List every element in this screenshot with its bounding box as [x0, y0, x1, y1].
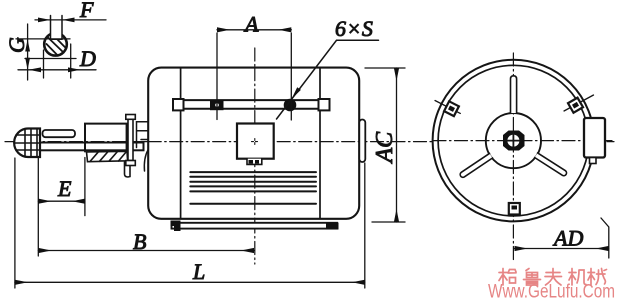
svg-text:6×S: 6×S	[335, 16, 373, 41]
L extension left	[14, 158, 16, 288]
terminal box	[237, 124, 274, 159]
main horizontal centerline	[5, 141, 614, 143]
fan plate stem	[128, 119, 133, 160]
A dimension	[217, 29, 291, 31]
end view rim circle	[438, 65, 589, 216]
shaft step profile	[137, 122, 149, 148]
6xS leader	[277, 40, 379, 119]
G dimension line	[27, 24, 29, 80]
svg-text:A: A	[243, 12, 259, 37]
right foot block	[326, 223, 339, 230]
hub circle	[486, 113, 541, 168]
E extension right	[84, 158, 86, 216]
AC extension top	[365, 67, 405, 69]
lug top-right tick	[564, 95, 594, 111]
shaft end dome	[14, 129, 40, 158]
E dimension	[38, 200, 85, 202]
F dimension line	[35, 19, 106, 21]
lower fin line	[190, 203, 316, 205]
fan plate cap	[126, 115, 136, 120]
B dimension	[38, 250, 254, 252]
base plate	[172, 223, 338, 229]
AD extension right	[601, 218, 609, 258]
key on shaft	[43, 130, 76, 137]
AC extension bottom	[372, 221, 405, 223]
L dimension	[15, 281, 365, 283]
G reference bottom	[25, 58, 76, 60]
A extension line left	[216, 33, 218, 120]
terminal box collar	[247, 159, 262, 165]
main vertical centerline	[254, 48, 256, 264]
shaft rod	[40, 143, 144, 151]
bracket foot	[125, 162, 131, 177]
end view terminal box	[584, 118, 605, 158]
spoke lower left	[460, 153, 492, 177]
keyway slot	[51, 30, 63, 39]
G reference top	[16, 38, 70, 40]
svg-text:F: F	[79, 0, 94, 22]
nut bore	[507, 135, 519, 147]
AD dimension	[515, 248, 609, 250]
AC dimension line	[396, 68, 398, 222]
rail lug left	[173, 99, 184, 110]
bearing block	[85, 124, 127, 152]
hex nut	[503, 131, 525, 151]
end view outer circle	[433, 60, 595, 222]
section hatching	[47, 36, 65, 55]
end bell curve	[144, 150, 148, 171]
svg-text:G: G	[4, 37, 29, 53]
stator frame line right	[319, 68, 321, 219]
D dimension line	[18, 69, 96, 71]
svg-text:AD: AD	[552, 226, 583, 251]
lifting rail	[176, 100, 327, 109]
svg-text:Www.GeLufu.Com: Www.GeLufu.Com	[488, 281, 615, 302]
svg-text:B: B	[133, 229, 146, 254]
rail lug right	[319, 99, 330, 110]
motor body	[148, 68, 359, 219]
lug top-right	[568, 98, 583, 113]
D extension lines	[44, 44, 71, 78]
watermark chinese	[499, 269, 607, 286]
right side bump	[359, 120, 365, 163]
bolt 1	[210, 100, 224, 110]
section circle	[44, 33, 67, 56]
bolt 2	[284, 99, 297, 112]
box stub	[590, 158, 597, 164]
left foot block	[171, 221, 181, 232]
svg-text:L: L	[192, 259, 205, 284]
lug top-left	[444, 101, 459, 116]
cooling fins	[190, 172, 316, 191]
stator frame line left	[180, 68, 182, 219]
lug bottom	[509, 203, 520, 215]
L extension right	[364, 163, 366, 288]
svg-text:D: D	[79, 46, 96, 71]
svg-text:E: E	[57, 176, 72, 201]
lug top-left tick	[435, 101, 460, 114]
centerline inside body	[148, 141, 359, 143]
E extension left / B left	[37, 158, 39, 257]
A extension line right	[290, 33, 292, 120]
hatched bracket band	[87, 151, 128, 161]
end view centerlines	[433, 140, 612, 142]
fan plate foot	[126, 161, 136, 166]
svg-text:AC: AC	[372, 131, 398, 165]
spoke lower right	[535, 153, 567, 176]
spoke top	[511, 76, 517, 113]
